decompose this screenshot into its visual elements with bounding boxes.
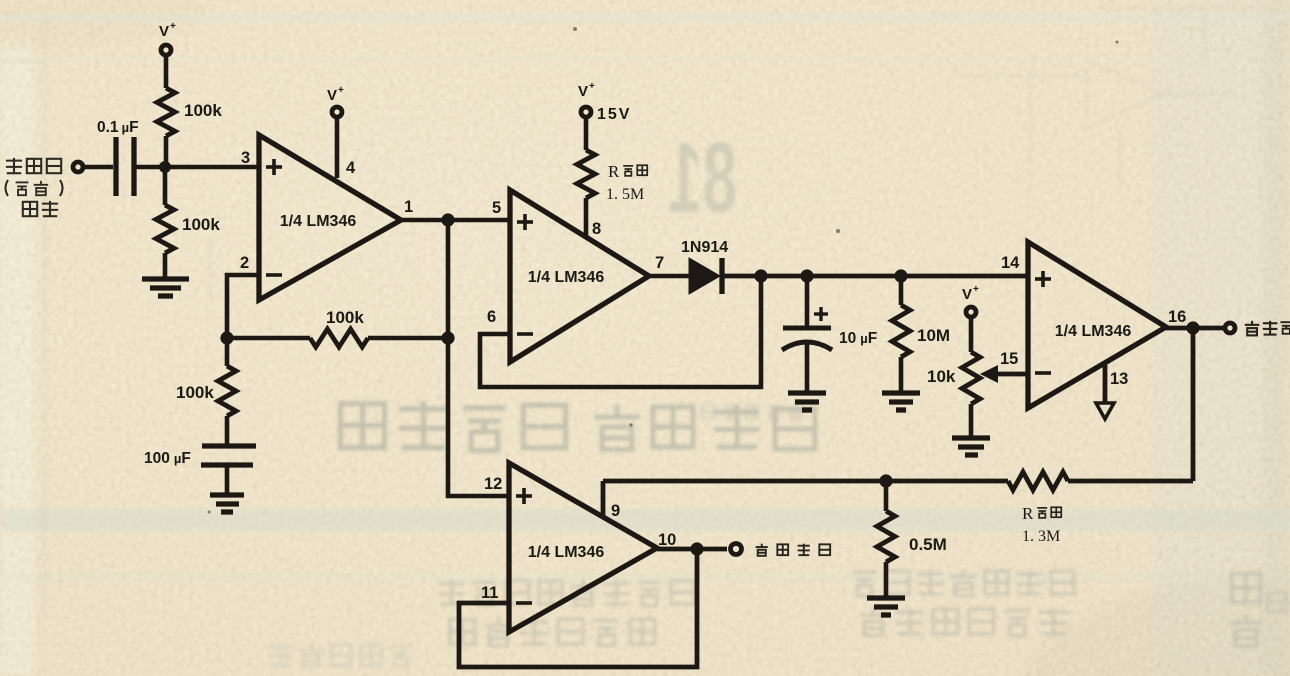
wire pin 9 stem: [601, 481, 606, 518]
svg-text:81: 81: [668, 122, 737, 234]
capacitor C2 100uF: [201, 446, 256, 465]
wire input to C1: [83, 165, 113, 170]
svg-text:3: 3: [241, 149, 250, 167]
scan bands: [0, 14, 1290, 23]
capacitor C1 0.1uF: [116, 137, 134, 196]
svg-text:1/4 LM346: 1/4 LM346: [1055, 323, 1132, 340]
svg-text:R: R: [1022, 504, 1034, 523]
node N6: [894, 269, 907, 282]
svg-text:V: V: [578, 83, 588, 100]
node N5: [800, 269, 813, 282]
op-amp U1 1/4 LM346: [259, 135, 401, 300]
resistor R9 Rset 1.3M: [1008, 472, 1068, 490]
wire U3 output: [1166, 326, 1226, 331]
ground G2: [210, 495, 244, 512]
V+ supply for potentiometer: [962, 284, 979, 352]
svg-text:10: 10: [658, 531, 676, 549]
wire N7 down to bottom feedback row: [1191, 328, 1196, 481]
svg-text:6: 6: [487, 308, 496, 326]
op-amp U4 1/4 LM346: [509, 463, 657, 632]
specks: [208, 27, 1119, 514]
diode D1 1N914: [689, 258, 722, 294]
svg-text:0.5M: 0.5M: [909, 535, 947, 554]
resistor R8 0.5M: [877, 511, 895, 562]
wire R1 to node: [164, 136, 169, 167]
wire R9 to pin9 segment: [603, 479, 1008, 484]
wire N5 to C3: [805, 276, 810, 326]
wire N8 to R8: [884, 481, 889, 511]
wire C1 to U1 pin3: [136, 165, 260, 170]
svg-text:14: 14: [1001, 254, 1020, 272]
wire C3 to ground: [805, 343, 810, 391]
node N2 feedback junction: [441, 331, 454, 344]
svg-text:9: 9: [611, 502, 620, 520]
V+ 15V supply: [578, 81, 631, 150]
svg-text:1/4 LM346: 1/4 LM346: [528, 269, 605, 286]
svg-text:1. 5M: 1. 5M: [606, 186, 644, 203]
wiper arrow to pin 15: [980, 365, 1028, 383]
wire R3 to C2: [225, 416, 230, 446]
svg-text:V: V: [327, 87, 337, 104]
wire N3 to R4: [227, 336, 310, 341]
svg-text:1/4 LM346: 1/4 LM346: [528, 544, 605, 561]
svg-text:13: 13: [1110, 370, 1128, 388]
wire diode to U3 pin14 rail: [724, 274, 1028, 279]
svg-text:1/4 LM346: 1/4 LM346: [280, 213, 357, 230]
wire R5 to pin 8: [584, 198, 589, 238]
wire pot to ground: [969, 404, 974, 436]
node N8: [879, 474, 892, 487]
pin 13 arrow to negative supply: [1096, 365, 1114, 419]
ground G3: [788, 393, 826, 410]
wire N3 down to R3: [225, 338, 230, 366]
svg-text:+: +: [973, 284, 979, 295]
op-amp U2 1/4 LM346: [510, 190, 649, 362]
svg-text:11: 11: [481, 584, 498, 602]
capacitor C3 10uF polarized: [782, 328, 832, 350]
wire bottom feedback row right segment: [1068, 479, 1193, 484]
svg-text:100k: 100k: [184, 101, 222, 120]
label 麦克风(话筒)输入: [6, 158, 61, 217]
label 音频输出: [756, 544, 830, 556]
wire U4 output: [657, 547, 727, 552]
svg-text:+: +: [338, 85, 344, 96]
svg-text:12: 12: [484, 475, 502, 493]
resistor R6 10M: [892, 305, 910, 357]
svg-text:1N914: 1N914: [681, 239, 728, 256]
potentiometer R7 10k: [962, 352, 980, 404]
svg-text:16: 16: [1168, 308, 1186, 326]
svg-text:1: 1: [404, 198, 413, 216]
svg-text:R: R: [608, 162, 620, 181]
node: input bias junction: [159, 161, 171, 173]
wire U2 feedback loop pin6: [480, 276, 761, 387]
wire pin4 stem: [335, 117, 340, 178]
resistor R4 100k feedback: [310, 329, 368, 347]
node N1: [441, 213, 454, 226]
svg-text:15V: 15V: [597, 106, 631, 123]
wire U4 feedback loop pin11: [459, 549, 697, 667]
resistor R3 100k: [218, 366, 236, 416]
svg-text:0.1µF: 0.1µF: [97, 119, 139, 136]
wire R2 to ground: [163, 253, 168, 279]
wire node to R2: [163, 167, 168, 205]
node N9: [690, 542, 703, 555]
svg-text:4: 4: [346, 159, 356, 177]
svg-text:100k: 100k: [182, 215, 220, 234]
label R setting 1.5M: [606, 162, 647, 203]
svg-text:2: 2: [240, 254, 249, 272]
wire R8 to ground: [884, 562, 889, 596]
wire R6 to ground: [899, 357, 904, 391]
wire U1 output rail to U2: [401, 218, 510, 223]
ground G5: [952, 438, 990, 455]
wire C2 to ground: [225, 465, 230, 493]
svg-text:+: +: [589, 81, 595, 92]
svg-text:+: +: [170, 21, 176, 32]
svg-text:7: 7: [655, 254, 664, 272]
wire U2 output to diode: [649, 274, 690, 279]
svg-text:100µF: 100µF: [144, 450, 191, 467]
svg-text:100k: 100k: [326, 308, 364, 327]
resistor R1 100k: [157, 88, 175, 136]
node N4: [754, 269, 767, 282]
control output terminal: [1225, 323, 1235, 333]
wire N6 to R6: [899, 276, 904, 305]
label 控制端: [1245, 321, 1290, 336]
ground G1: [142, 279, 189, 296]
wire N1 vertical down to pin12 row: [448, 220, 509, 496]
V+ supply for U1 pin 4: [327, 85, 344, 117]
audio output terminal: [731, 544, 742, 555]
svg-text:V: V: [962, 286, 972, 303]
svg-text:10M: 10M: [917, 326, 950, 345]
svg-text:15: 15: [1000, 350, 1018, 368]
input terminal (microphone): [73, 162, 83, 172]
node N7: [1186, 321, 1199, 334]
svg-text:10k: 10k: [927, 367, 956, 386]
wire pin2 to left junction: [227, 275, 259, 338]
svg-text:5: 5: [492, 199, 501, 217]
node N3: [220, 331, 233, 344]
resistor R5 Rset 1.5M: [577, 150, 595, 198]
wire R4 to N2: [368, 336, 448, 341]
resistor R2 100k: [156, 205, 174, 253]
svg-text:1. 3M: 1. 3M: [1022, 528, 1060, 545]
ground G4: [882, 393, 920, 410]
label R setting 1.3M: [1022, 504, 1061, 545]
plus mark: [814, 307, 828, 321]
ground G6: [867, 598, 905, 615]
V+ supply top-left: [159, 21, 176, 88]
svg-text:V: V: [159, 23, 169, 40]
svg-text:8: 8: [592, 220, 601, 238]
svg-text:100k: 100k: [176, 383, 214, 402]
op-amp U3 1/4 LM346: [1028, 242, 1166, 408]
